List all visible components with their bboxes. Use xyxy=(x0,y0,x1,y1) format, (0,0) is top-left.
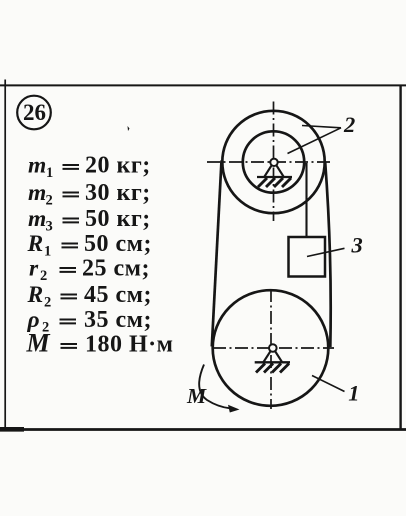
svg-text:2: 2 xyxy=(42,320,49,336)
svg-text:25 см;: 25 см; xyxy=(82,256,150,282)
svg-text:50 см;: 50 см; xyxy=(84,231,152,257)
svg-text:2: 2 xyxy=(343,112,355,137)
svg-text:2: 2 xyxy=(46,193,53,209)
svg-text:1: 1 xyxy=(44,244,51,260)
svg-text:m: m xyxy=(28,206,46,232)
svg-text:R: R xyxy=(27,282,44,308)
svg-text:M: M xyxy=(186,384,207,408)
svg-text:1: 1 xyxy=(46,165,53,181)
svg-text:45 см;: 45 см; xyxy=(84,282,152,308)
svg-text:3: 3 xyxy=(46,219,53,235)
svg-text:3: 3 xyxy=(351,232,363,257)
svg-text:r: r xyxy=(29,256,39,282)
svg-text:2: 2 xyxy=(44,295,51,311)
svg-text:2: 2 xyxy=(40,268,47,284)
svg-text:50 кг;: 50 кг; xyxy=(85,206,151,232)
svg-text:35 см;: 35 см; xyxy=(84,307,152,333)
svg-text:m: m xyxy=(28,153,46,179)
svg-text:1: 1 xyxy=(348,380,359,405)
svg-text:30 кг;: 30 кг; xyxy=(85,180,151,206)
svg-text:20 кг;: 20 кг; xyxy=(85,153,151,179)
svg-text:26: 26 xyxy=(23,100,46,125)
svg-text:m: m xyxy=(28,180,46,206)
svg-text:R: R xyxy=(27,231,44,257)
svg-text:180 Н·м: 180 Н·м xyxy=(85,332,174,358)
